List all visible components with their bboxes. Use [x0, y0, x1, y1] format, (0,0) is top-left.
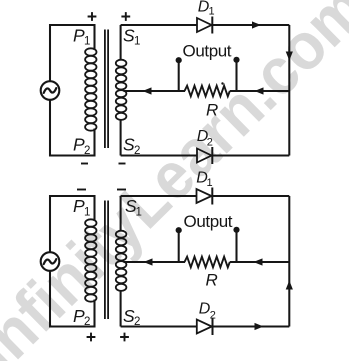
diode D1 (circuit 2): [197, 189, 212, 203]
wire: secondary top to D1 (circuit 2): [121, 195, 197, 197]
wire: D2 to right rail (circuit 1): [212, 154, 289, 156]
svg-text:1: 1: [84, 35, 90, 47]
arrow: current right on bottom wire (circuit 2): [255, 323, 264, 330]
wire: primary left loop (circuit 1): [50, 25, 95, 81]
AC source (circuit 1): [41, 81, 60, 100]
output node dot left (circuit 1): [176, 57, 182, 63]
diode D1 (circuit 1): [197, 18, 212, 32]
svg-text:Output: Output: [184, 212, 233, 231]
wire: secondary bottom to D2 (circuit 1): [121, 154, 197, 156]
svg-text:2: 2: [84, 145, 90, 157]
svg-text:1: 1: [209, 6, 215, 18]
resistor R zigzag (circuit 1): [185, 86, 230, 97]
arrow: current left on tap wire (circuit 1): [143, 87, 152, 94]
wire: resistor to right rail (circuit 2): [230, 261, 289, 263]
AC source (circuit 2): [41, 252, 60, 271]
wire: output right terminal drop (circuit 1): [235, 60, 237, 91]
diode D2 cathode bar (circuit 1): [211, 147, 213, 164]
AC source sine symbol (circuit 2): [44, 259, 57, 264]
svg-text:1: 1: [207, 177, 213, 189]
svg-text:1: 1: [84, 207, 90, 219]
polarity - above P1 (circuit 2): [77, 189, 86, 191]
svg-text:2: 2: [134, 145, 140, 157]
wire: D2 to right rail (circuit 2): [213, 325, 290, 327]
AC source sine symbol (circuit 1): [44, 88, 57, 93]
svg-text:1: 1: [136, 207, 142, 219]
transformer core (circuit 1): [105, 30, 108, 149]
wire: primary left loop lower (circuit 1): [50, 100, 95, 156]
diode D1 cathode bar (circuit 1): [211, 17, 213, 34]
arrow: current right on top wire (circuit 1): [252, 21, 261, 28]
svg-text:R: R: [206, 271, 218, 290]
wire: primary left loop (circuit 2): [50, 196, 95, 252]
wire: D1 to right rail (circuit 2): [212, 195, 289, 197]
polarity - below S2 (circuit 1): [119, 163, 126, 165]
diode D2 cathode bar (circuit 2): [212, 318, 214, 335]
wire: center tap to resistor (circuit 2): [124, 261, 186, 263]
arrow: current left right of resistor (circuit 2): [254, 258, 263, 265]
transformer secondary coil S (circuit 1): [116, 60, 127, 120]
wire: center tap to resistor (circuit 1): [124, 90, 186, 92]
wire: right rail (circuit 2): [288, 196, 290, 327]
wire: S2 lead (circuit 1): [120, 119, 122, 156]
wire: right rail (circuit 1): [288, 25, 290, 156]
polarity - above S1 (circuit 2): [117, 189, 126, 191]
polarity + below P2 (circuit 2): [87, 333, 96, 342]
wire: primary left loop lower (circuit 2): [50, 271, 95, 327]
diode D1 cathode bar (circuit 2): [211, 188, 213, 205]
svg-text:2: 2: [210, 310, 216, 322]
wire: S1 lead (circuit 1): [120, 25, 122, 60]
diode D2 (circuit 2): [197, 320, 212, 334]
wire: S2 lead (circuit 2): [120, 290, 122, 327]
svg-text:2: 2: [134, 316, 140, 328]
wire: secondary top to D1 (circuit 1): [121, 24, 197, 26]
transformer secondary coil S (circuit 2): [116, 231, 127, 291]
polarity + below S2 (circuit 2): [120, 333, 129, 342]
wire: secondary bottom to D2 (circuit 2): [121, 325, 197, 327]
arrow: current left on tap wire (circuit 2): [144, 258, 153, 265]
arrow: current down on right rail (circuit 1): [286, 52, 293, 61]
wire: D1 to right rail (circuit 1): [212, 24, 289, 26]
transformer primary coil P (circuit 2): [85, 219, 96, 301]
svg-text:2: 2: [84, 316, 90, 328]
arrow: current left right of resistor (circuit 1): [255, 87, 264, 94]
wire: output left terminal drop (circuit 1): [178, 60, 180, 91]
arrow: current up on right rail (circuit 2): [286, 281, 293, 290]
wire: output left terminal drop (circuit 2): [178, 231, 180, 262]
polarity + above P1 (circuit 1): [88, 12, 97, 21]
stray mark near resistor (circuit 1): [221, 82, 223, 84]
svg-text:2: 2: [207, 137, 213, 149]
output node dot right (circuit 2): [233, 227, 239, 233]
polarity - below P2 (circuit 1): [81, 163, 88, 165]
transformer core (circuit 2): [105, 201, 108, 320]
wire: resistor to right rail (circuit 1): [230, 90, 289, 92]
diode D2 (circuit 1): [197, 149, 212, 163]
output node dot left (circuit 2): [176, 227, 182, 233]
svg-text:R: R: [206, 101, 218, 120]
wire: S1 lead (circuit 2): [120, 196, 122, 231]
polarity + above S1 (circuit 1): [121, 12, 130, 21]
svg-text:1: 1: [134, 35, 140, 47]
resistor R zigzag (circuit 2): [185, 257, 230, 268]
wire: output right terminal drop (circuit 2): [235, 231, 237, 262]
svg-text:Output: Output: [183, 41, 232, 60]
output node dot right (circuit 1): [233, 57, 239, 63]
transformer primary coil P (circuit 1): [85, 48, 96, 130]
